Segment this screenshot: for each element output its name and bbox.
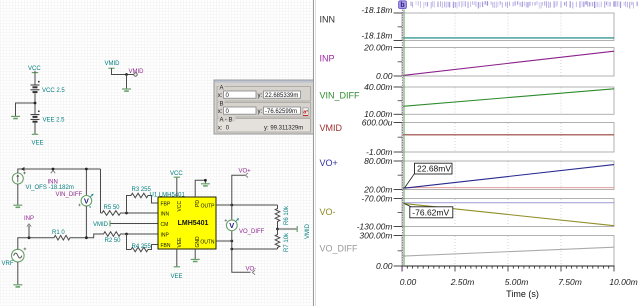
wire VI_OFS to ground [17, 184, 19, 205]
resistor R2 50 [102, 232, 122, 237]
svg-text:VMID: VMID [305, 223, 311, 239]
svg-text:0.00: 0.00 [400, 277, 417, 287]
wire R5 to chip INN pin [122, 212, 158, 214]
svg-text:FBP: FBP [161, 201, 171, 207]
node terminal VO+ [245, 173, 248, 178]
ground supplies [11, 116, 20, 118]
wire junction to ground [16, 103, 36, 116]
field B x [218, 107, 256, 115]
svg-text:VO-: VO- [246, 267, 257, 273]
svg-text:-76.62599m: -76.62599m [265, 109, 297, 115]
svg-text:7.50m: 7.50m [558, 277, 582, 287]
svg-text:GND: GND [195, 236, 201, 248]
svg-text:VCC: VCC [170, 171, 183, 177]
svg-text:OUTN: OUTN [200, 239, 215, 245]
svg-text:INN: INN [161, 211, 170, 217]
time axis [402, 266, 615, 272]
node junction OUTN [230, 240, 233, 243]
svg-text:40.00m: 40.00m [364, 82, 392, 92]
resistor R5 50 [101, 211, 123, 216]
resistor R7 10k [277, 229, 279, 249]
svg-text:VIN_DIFF: VIN_DIFF [56, 192, 83, 198]
svg-text:INN: INN [320, 15, 336, 25]
svg-text:-18.18m: -18.18m [361, 31, 392, 41]
trace VIN_DIFF [403, 89, 614, 107]
plot panel INP [320, 42, 615, 81]
svg-text:INP: INP [24, 216, 34, 222]
cursor-b level line (pale blue) in VO- panel [403, 202, 614, 204]
ground VI_OFS [13, 205, 22, 207]
svg-text:5.00m: 5.00m [505, 277, 529, 287]
node junction INN terminal [52, 168, 55, 171]
voltmeter VIN_DIFF wire bottom [85, 206, 87, 238]
wire VCC2.5 to VEE2.5 [34, 93, 36, 114]
wire R3 riser [127, 196, 130, 214]
voltmeter U3 (VO_DIFF) [225, 218, 239, 231]
marker callout 22.68mV [405, 163, 453, 188]
svg-text:B: B [220, 101, 224, 107]
measurement panel background [214, 80, 314, 134]
svg-text:VMID: VMID [320, 123, 343, 133]
button cursor b (red icon) [303, 108, 308, 116]
wire R3 to chip FBP pin [150, 196, 159, 204]
svg-text:-70.00m: -70.00m [361, 193, 392, 203]
power terminal VMID right [296, 226, 298, 232]
node junction R7 rail [230, 248, 233, 251]
svg-text:x: 0: x: 0 [218, 125, 230, 131]
svg-text:INP: INP [320, 54, 335, 64]
wire VRF to ground [17, 262, 19, 284]
svg-text:VMID: VMID [93, 222, 109, 228]
wire OUTN [216, 240, 232, 242]
svg-text:y: 99.311329m: y: 99.311329m [264, 125, 303, 131]
wire INN riser [100, 169, 102, 213]
svg-text:Time (s): Time (s) [506, 289, 539, 299]
svg-text:R4 255: R4 255 [132, 244, 152, 250]
svg-text:VMID: VMID [105, 61, 121, 67]
power terminal VMID [109, 68, 115, 70]
svg-text:VO+: VO+ [239, 169, 252, 175]
wire chip GND pin down [194, 249, 196, 259]
svg-text:-18.18m: -18.18m [361, 5, 392, 15]
node VMID output terminal [134, 73, 137, 76]
svg-text:80.00m: 80.00m [364, 156, 392, 166]
node terminal INN [51, 170, 55, 173]
plot panel VO- [320, 193, 615, 231]
resistor R4 255 [130, 247, 150, 252]
svg-text:b: b [400, 2, 404, 9]
trace VO- [403, 203, 614, 225]
ground GND pin [191, 259, 200, 261]
wire VCC terminal to VCC2.5 battery [34, 73, 36, 85]
wire INN rail [18, 169, 101, 173]
svg-text:LMH5401: LMH5401 [178, 220, 209, 227]
wire VMID terminal to junction [112, 70, 134, 75]
voltmeter VIN_DIFF wire top [85, 169, 87, 196]
cursor b vertical dashed line [401, 10, 403, 273]
power terminal VEE chip [174, 266, 180, 268]
svg-text:PD: PD [195, 200, 201, 207]
voltage source VI_OFS [12, 172, 26, 184]
svg-text:U1 LMH5401: U1 LMH5401 [150, 193, 186, 199]
plot panel VMID [320, 117, 615, 156]
svg-text:VI_OFS -18.182m: VI_OFS -18.182m [26, 185, 74, 191]
svg-text:VO_DIFF: VO_DIFF [320, 244, 359, 254]
op-amp U1 LMH5401 body [158, 197, 216, 249]
svg-text:A: A [220, 85, 224, 91]
arrow on source corner [21, 167, 25, 171]
svg-text:FBN: FBN [161, 243, 171, 249]
group box A [217, 84, 311, 101]
svg-text:VO-: VO- [320, 207, 336, 217]
wire VMID branch right [278, 228, 297, 230]
wire VRF to INP rail [18, 238, 53, 250]
svg-text:x:: x: [218, 109, 223, 115]
svg-text:R3 255: R3 255 [132, 187, 152, 193]
svg-text:20.00m: 20.00m [363, 42, 392, 52]
svg-text:22.685339m: 22.685339m [265, 93, 298, 99]
svg-text:VCC 2.5: VCC 2.5 [42, 88, 65, 94]
battery V1 VCC 2.5 [31, 81, 40, 92]
svg-text:0.00: 0.00 [376, 71, 393, 81]
svg-text:VEE 2.5: VEE 2.5 [43, 118, 66, 124]
svg-text:V: V [229, 221, 234, 230]
node terminal VO- [252, 270, 255, 275]
trace VO+ [403, 165, 614, 189]
svg-text:22.68mV: 22.68mV [417, 164, 451, 174]
power terminal VCC chip [174, 176, 180, 178]
node terminal INP [27, 224, 31, 227]
svg-text:VCC: VCC [177, 201, 183, 212]
svg-text:VIN_DIFF: VIN_DIFF [320, 91, 361, 101]
cursor a vertical line (green) [403, 10, 405, 267]
wire chip VEE pin down [176, 249, 178, 267]
svg-text:600.00u: 600.00u [362, 117, 393, 127]
plot panel VO+ [320, 156, 615, 195]
legend strip (tiny glyphs, top right) [411, 1, 638, 8]
svg-text:INP: INP [161, 232, 170, 238]
node junction meter top [85, 168, 88, 171]
field A y = 22.685339m [258, 91, 301, 99]
svg-text:VEE: VEE [32, 141, 44, 147]
wire VO vertical through meter [232, 205, 251, 272]
field B y = -76.62599m [258, 107, 301, 115]
svg-text:OUTP: OUTP [201, 203, 216, 209]
svg-text:0.00: 0.00 [376, 261, 393, 271]
ground VMID [122, 89, 131, 91]
svg-text:R5 50: R5 50 [104, 205, 121, 211]
svg-text:VO_DIFF: VO_DIFF [239, 229, 265, 235]
node junction PD [204, 179, 207, 182]
svg-text:x:: x: [218, 93, 223, 99]
voltage source VRF (sine) [11, 248, 26, 262]
node junction supplies mid [34, 102, 37, 105]
svg-text:VCC: VCC [28, 66, 41, 72]
svg-text:A - B: A - B [220, 117, 233, 123]
cursor handle b icon [399, 1, 407, 9]
svg-text:R6 10k: R6 10k [284, 205, 290, 225]
trace VO_DIFF [403, 247, 614, 256]
group box A - B [217, 116, 311, 132]
svg-text:VRF: VRF [2, 261, 14, 267]
svg-text:y:: y: [258, 93, 263, 99]
node junction R6/R7 [276, 228, 279, 231]
wire R7 bottom rail [232, 248, 278, 250]
power terminal VCC [32, 71, 38, 73]
node junction VMID [125, 73, 128, 76]
wire INP terminal stub [28, 226, 30, 238]
svg-text:V: V [84, 197, 89, 206]
svg-text:2.50m: 2.50m [450, 277, 475, 287]
svg-text:VMID: VMID [129, 69, 145, 75]
node junction meter bottom [85, 236, 88, 239]
voltmeter U2 (VIN_DIFF) [78, 194, 93, 208]
wire R4 riser [127, 234, 130, 250]
node junction OUTP [230, 204, 233, 207]
svg-text:INN: INN [48, 180, 58, 186]
plot panel INN [320, 5, 615, 41]
plot panel VIN_DIFF [320, 82, 615, 119]
node junction INP/R4 [125, 233, 128, 236]
wire chip PD pin to ground [195, 180, 205, 197]
power terminal VEE [32, 133, 38, 135]
trace INN [403, 37, 614, 39]
wire VO+ branch [232, 175, 245, 205]
trace INP [403, 51, 614, 75]
svg-text:-76.62mV: -76.62mV [412, 207, 449, 217]
field A x [218, 91, 256, 99]
wire VMID junction to ground [126, 75, 128, 89]
resistor R3 255 [130, 193, 150, 198]
svg-text:R2 50: R2 50 [105, 238, 122, 244]
cursor-a level line (salmon) in VO+ panel [403, 187, 614, 189]
svg-text:VEE: VEE [177, 237, 183, 248]
wire R2 to chip INP pin [122, 233, 158, 235]
wire R1 to R2 step [72, 234, 103, 238]
svg-text:R7 10k: R7 10k [284, 232, 290, 252]
resistor R1 0 [53, 235, 72, 240]
power terminal VMID at CM pin [109, 221, 111, 227]
ground VRF [13, 285, 22, 287]
svg-text:VO+: VO+ [320, 158, 338, 168]
wire OUTP to R6 [216, 204, 278, 206]
svg-text:10.00m: 10.00m [609, 277, 637, 287]
svg-text:y:: y: [258, 109, 263, 115]
resistor R6 10k [277, 205, 279, 229]
wire chip VCC pin up [176, 178, 178, 198]
group box B [217, 100, 311, 117]
svg-text:R1 0: R1 0 [52, 230, 65, 236]
svg-text:CM: CM [161, 222, 169, 228]
wire CM pin [111, 223, 159, 225]
ground PD [201, 184, 210, 186]
svg-text:VEE: VEE [171, 274, 183, 280]
battery V2 VEE 2.5 [31, 110, 40, 121]
plot panel VO_DIFF [320, 230, 615, 271]
wire VEE2.5 to VEE terminal [34, 123, 36, 134]
node junction INP terminal [28, 236, 31, 239]
trace VMID [403, 134, 614, 136]
wire R4 to chip FBN pin [150, 245, 159, 250]
svg-text:300.00m: 300.00m [359, 230, 392, 240]
marker callout -76.62mV [405, 204, 453, 218]
node junction INN/R3 [125, 212, 128, 215]
